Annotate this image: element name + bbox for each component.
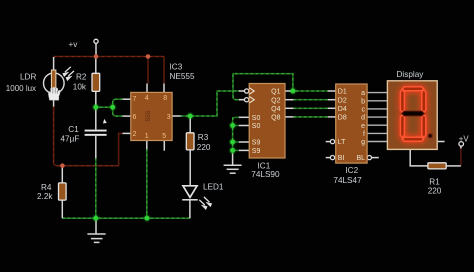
svg-text:Q8: Q8	[271, 115, 280, 122]
svg-text:S9: S9	[252, 148, 261, 155]
svg-text:R1: R1	[429, 177, 440, 186]
svg-text:LT: LT	[338, 139, 346, 146]
svg-text:LED1: LED1	[203, 182, 224, 191]
svg-text:BI: BI	[338, 155, 345, 162]
svg-text:8: 8	[163, 95, 167, 102]
svg-text:d: d	[361, 115, 365, 122]
svg-text:1000 lux: 1000 lux	[6, 84, 36, 93]
svg-text:g: g	[361, 139, 365, 146]
svg-text:2.2k: 2.2k	[37, 192, 53, 201]
svg-text:6: 6	[133, 114, 137, 121]
svg-text:LDR: LDR	[20, 73, 36, 82]
svg-text:1: 1	[145, 133, 149, 140]
svg-text:b: b	[361, 98, 365, 105]
svg-text:220: 220	[197, 143, 211, 152]
svg-text:Q4: Q4	[271, 106, 280, 113]
svg-text:R2: R2	[76, 73, 87, 82]
svg-text:D2: D2	[338, 97, 347, 104]
svg-text:2: 2	[133, 131, 137, 138]
svg-text:R3: R3	[198, 133, 209, 142]
svg-text:D8: D8	[338, 115, 347, 122]
svg-text:BL: BL	[356, 155, 365, 162]
svg-text:10k: 10k	[73, 82, 87, 91]
svg-text:Display: Display	[397, 70, 425, 79]
svg-text:S9: S9	[252, 140, 261, 147]
svg-text:D4: D4	[338, 106, 347, 113]
svg-text:74LS47: 74LS47	[333, 176, 362, 185]
svg-text:+V: +V	[459, 134, 470, 143]
svg-text:D1: D1	[338, 89, 347, 96]
svg-text:NE555: NE555	[170, 72, 195, 81]
svg-text:S0: S0	[252, 123, 261, 130]
svg-text:3: 3	[167, 114, 171, 121]
svg-text:IC2: IC2	[345, 166, 358, 175]
svg-text:C1: C1	[68, 125, 79, 134]
svg-text:IC3: IC3	[170, 63, 183, 72]
svg-text:7: 7	[133, 96, 137, 103]
svg-text:4: 4	[145, 95, 149, 102]
svg-text:555: 555	[145, 110, 152, 121]
svg-text:47µF: 47µF	[61, 134, 80, 143]
svg-text:5: 5	[162, 133, 166, 140]
svg-text:Q1: Q1	[271, 89, 280, 96]
svg-text:IC1: IC1	[258, 162, 271, 171]
svg-text:74LS90: 74LS90	[251, 170, 280, 179]
svg-text:e: e	[361, 123, 365, 130]
svg-text:R4: R4	[41, 183, 52, 192]
svg-text:Q2: Q2	[271, 97, 280, 104]
svg-text:a: a	[361, 90, 365, 97]
svg-text:f: f	[363, 131, 365, 138]
svg-text:+v: +v	[69, 40, 79, 49]
svg-text:c: c	[362, 107, 366, 114]
svg-text:S0: S0	[252, 115, 261, 122]
svg-text:220: 220	[428, 186, 442, 195]
